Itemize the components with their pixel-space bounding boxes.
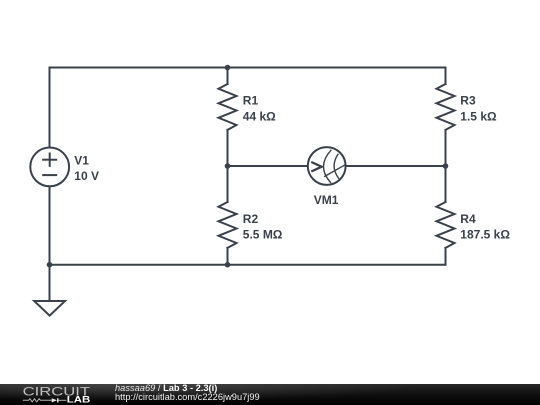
- node mid rail left junction: [225, 163, 231, 169]
- node bottom rail junction: [225, 262, 231, 268]
- wire left rail upper (top rail to V1): [49, 68, 51, 147]
- wire mid rail right segment: [347, 165, 446, 167]
- voltmeter VM1: [308, 147, 346, 185]
- node mid rail right junction: [443, 163, 449, 169]
- svg-text:R3: R3: [460, 94, 476, 108]
- svg-text:R4: R4: [460, 212, 476, 226]
- footer text: [115, 384, 260, 403]
- svg-text:R1: R1: [243, 94, 259, 108]
- wire left rail lower (V1 to bottom rail): [49, 187, 51, 265]
- wire top rail: [50, 67, 446, 69]
- resistor R4: [437, 202, 455, 248]
- label R3 value 1.5 kOhm: [460, 94, 497, 124]
- label R1 value 44 kOhm: [243, 94, 276, 124]
- wire right branch top stub: [445, 68, 447, 85]
- svg-text:187.5 kΩ: 187.5 kΩ: [460, 228, 510, 242]
- ground: [34, 265, 65, 316]
- svg-text:VM1: VM1: [314, 193, 339, 207]
- svg-text:V1: V1: [74, 154, 89, 168]
- resistor R1: [219, 84, 237, 130]
- resistor R2: [219, 202, 237, 248]
- voltage source V1: [30, 148, 69, 187]
- svg-text:44 kΩ: 44 kΩ: [243, 109, 276, 123]
- wire mid rail left segment: [228, 165, 307, 167]
- wire R3 bottom to mid rail: [445, 130, 447, 202]
- wire R1 bottom to mid rail: [227, 130, 229, 202]
- svg-text:LAB: LAB: [67, 395, 91, 405]
- label V1 value: [74, 154, 99, 184]
- svg-text:10 V: 10 V: [74, 169, 99, 183]
- label R2 value 5.5 MOhm: [243, 212, 283, 242]
- svg-text:5.5 MΩ: 5.5 MΩ: [243, 228, 283, 242]
- svg-text:1.5 kΩ: 1.5 kΩ: [460, 109, 497, 123]
- wire bottom rail: [50, 264, 446, 266]
- wire R2 bottom stub: [227, 248, 229, 265]
- footer bar: [0, 384, 540, 405]
- label R4 value 187.5 kOhm: [460, 212, 510, 242]
- CircuitLab logo: [0, 384, 100, 405]
- resistor R3: [437, 84, 455, 130]
- wire R4 bottom to bottom rail: [445, 248, 447, 265]
- wire middle branch top stub: [227, 68, 229, 85]
- svg-text:R2: R2: [243, 212, 259, 226]
- node top rail junction: [225, 65, 231, 71]
- node ground junction: [47, 262, 53, 268]
